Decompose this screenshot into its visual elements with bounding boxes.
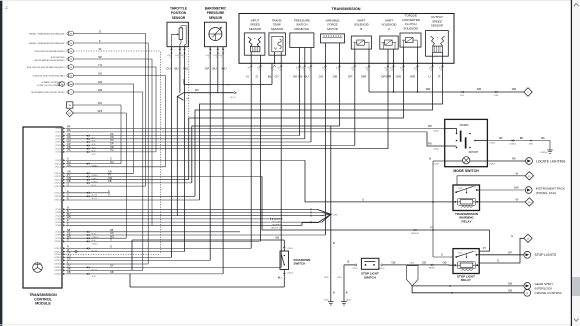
- wire TCM pin LY147-9 (S): [66, 159, 306, 161]
- wire B down to ground: [330, 126, 332, 302]
- svg-text:ECM FUEL INJECTION (FUEL FAIL): ECM FUEL INJECTION (FUEL FAIL): [33, 74, 65, 77]
- svg-text:LY148-4: LY148-4: [55, 219, 61, 221]
- svg-text:LY148-7: LY148-7: [55, 232, 61, 234]
- svg-text:UG: UG: [98, 72, 103, 76]
- svg-text:LY204-2: LY204-2: [287, 272, 293, 274]
- wire BU rail (tps/bps): [179, 47, 181, 93]
- svg-text:LY148-10: LY148-10: [54, 241, 61, 243]
- svg-text:LY18-4: LY18-4: [352, 268, 357, 270]
- svg-text:BLK: BLK: [414, 68, 417, 70]
- wire TCM pin LY147-5 (OU): [66, 141, 312, 143]
- svg-text:-2: -2: [216, 57, 218, 59]
- W top diamond: [525, 172, 533, 180]
- ground LS516: [328, 301, 334, 303]
- stop relay coil: [457, 262, 475, 269]
- svg-text:BU: BU: [174, 66, 178, 70]
- svg-text:30: 30: [70, 33, 72, 35]
- variable force motor box: [321, 34, 345, 43]
- svg-text:BLK: BLK: [257, 68, 260, 70]
- svg-text:BLK: BLK: [296, 68, 299, 70]
- svg-text:THROTTLE: THROTTLE: [170, 7, 187, 11]
- wire GB (splice to cruise control): [412, 286, 524, 293]
- wire GP (relay to stop lights): [479, 254, 524, 256]
- svg-text:LY147-4: LY147-4: [55, 139, 61, 141]
- connector 23 (climate control): [58, 82, 60, 86]
- svg-text:(TRANS. FAIL): (TRANS. FAIL): [536, 191, 557, 195]
- wire OU (tps to TCM): [171, 47, 173, 258]
- wire GP (bps to TCM): [209, 47, 211, 261]
- svg-text:LY29: LY29: [213, 55, 217, 57]
- strategy select link: [272, 218, 274, 220]
- oss pickup symbol: [431, 36, 435, 46]
- svg-text:LY147-6: LY147-6: [55, 145, 61, 147]
- wire TCM pin LY148-19 (OB): [66, 273, 224, 275]
- svg-text:PRESSURE: PRESSURE: [207, 11, 225, 15]
- svg-text:BLK: BLK: [429, 68, 432, 70]
- mode switch lamp: [463, 157, 470, 164]
- wire TCM pin LY148-10 (G): [66, 240, 260, 242]
- WR inline connector LY264: [495, 91, 497, 93]
- wire W (dashed): [73, 51, 160, 254]
- svg-text:LY29: LY29: [206, 55, 210, 57]
- svg-text:LY148-18: LY148-18: [54, 270, 61, 272]
- svg-text:LY18-2: LY18-2: [379, 268, 384, 270]
- right area vertical tie: [432, 202, 434, 257]
- wire BU (kickdown to TCM): [130, 286, 284, 288]
- svg-text:LY147-13: LY147-13: [54, 176, 61, 178]
- svg-text:LY147-5: LY147-5: [55, 142, 61, 144]
- svg-text:LY147-3: LY147-3: [55, 135, 61, 137]
- wire G (input speed sensor to TCM): [260, 63, 262, 241]
- wire TCM pin LY147-19 (R): [66, 199, 200, 201]
- svg-text:LY148-14: LY148-14: [54, 257, 61, 259]
- svg-text:-1: -1: [221, 57, 223, 59]
- svg-text:LY147-7: LY147-7: [55, 148, 61, 150]
- tcc solenoid symbol: [405, 38, 413, 43]
- stop lights exit: [524, 251, 531, 258]
- svg-text:GB: GB: [275, 236, 279, 240]
- ground LM283 (mode switch): [547, 149, 553, 151]
- kickdown switch box: [280, 251, 289, 270]
- svg-text:GB: GB: [392, 260, 396, 264]
- BK inline connector GM70: [530, 140, 532, 142]
- trans temp sensor box: [269, 33, 286, 55]
- svg-text:LY264: LY264: [494, 95, 499, 97]
- svg-text:GL16: GL16: [92, 240, 96, 242]
- svg-text:U: U: [67, 194, 69, 197]
- svg-text:LG6: LG6: [186, 98, 189, 100]
- svg-text:-14: -14: [401, 70, 403, 72]
- svg-text:LY148-5: LY148-5: [55, 222, 61, 224]
- tts pins: [273, 52, 275, 64]
- wire SP: [73, 59, 152, 225]
- svg-text:GB: GB: [508, 281, 512, 285]
- svg-text:BLK: BLK: [322, 68, 325, 70]
- svg-text:GM70: GM70: [529, 143, 533, 145]
- svg-text:-1: -1: [182, 57, 184, 59]
- iss pickup symbol: [248, 37, 252, 47]
- wire TCM pin LY148-12 (W): [66, 251, 185, 253]
- svg-text:WR: WR: [386, 74, 392, 78]
- svg-text:TRANSMISSION: TRANSMISSION: [331, 7, 360, 11]
- svg-text:GP: GP: [508, 250, 512, 254]
- svg-text:BLK: BLK: [308, 68, 311, 70]
- svg-text:RK: RK: [512, 156, 516, 160]
- svg-text:LM283-6: LM283-6: [541, 152, 547, 154]
- svg-text:BLK: BLK: [278, 68, 281, 70]
- mode switch box: [445, 119, 488, 166]
- output speed sensor box: [426, 31, 449, 57]
- svg-text:LY147-15: LY147-15: [54, 183, 61, 185]
- wire TCM pin LY148-13 (GP): [66, 253, 161, 255]
- svg-text:FY: FY: [430, 226, 434, 230]
- svg-text:WU: WU: [183, 66, 188, 70]
- BK inline connector LY284-12: [511, 140, 513, 142]
- BU rail inline connector GL1-11: [234, 92, 236, 94]
- svg-text:OP: OP: [348, 74, 352, 78]
- TCM pin arrows: [63, 127, 65, 129]
- svg-text:LY147-19: LY147-19: [54, 200, 61, 202]
- wire GN: [74, 84, 133, 173]
- svg-text:SPORT: SPORT: [469, 150, 479, 154]
- instrument pack exit: [525, 187, 532, 194]
- cruise control exit: [524, 289, 531, 296]
- svg-text:GB: GB: [98, 88, 102, 92]
- svg-text:23: 23: [61, 84, 63, 86]
- svg-text:INSTRUMENT PACK: INSTRUMENT PACK: [536, 186, 566, 190]
- GB chain dots: [449, 285, 451, 287]
- svg-text:GL16: GL16: [92, 141, 96, 143]
- svg-text:LY146-2: LY146-2: [433, 149, 439, 151]
- svg-text:SENSOR: SENSOR: [249, 27, 261, 31]
- scrollbar divider line: [571, 0, 572, 326]
- svg-text:G: G: [497, 259, 499, 263]
- svg-text:LY148-2: LY148-2: [55, 212, 61, 214]
- svg-text:LY90: LY90: [180, 55, 184, 57]
- transmission pin arrows: [250, 65, 252, 67]
- wire TCM pin LY148-5 (P): [66, 221, 323, 223]
- stop relay G input wire: [433, 256, 453, 258]
- svg-text:GL1-10: GL1-10: [92, 269, 97, 271]
- svg-text:LY148-12: LY148-12: [54, 251, 61, 253]
- svg-text:GL14: GL14: [92, 276, 96, 278]
- svg-text:BK: BK: [520, 136, 524, 140]
- svg-text:RELAY: RELAY: [461, 278, 471, 282]
- wire S (TCM to warning relay): [305, 160, 453, 202]
- svg-text:WR: WR: [426, 87, 431, 91]
- svg-text:OW: OW: [396, 74, 401, 78]
- wire TCM pin LY148-6 (S): [66, 224, 303, 226]
- GB inline connector SH180-7: [431, 264, 433, 266]
- svg-text:-6: -6: [303, 70, 304, 72]
- svg-text:GB: GB: [422, 260, 426, 264]
- connector 26A row GN: [67, 82, 69, 86]
- svg-text:LY148-3: LY148-3: [55, 215, 61, 217]
- wire OP (shift solenoid B to TCM): [354, 63, 356, 145]
- svg-text:MOTOR: MOTOR: [327, 27, 338, 31]
- wire B merge bundle: [317, 209, 331, 214]
- svg-text:GL14: GL14: [460, 95, 464, 97]
- svg-text:SERIAL COMMUNICATIONS DATA LIN: SERIAL COMMUNICATIONS DATA LINK: [29, 42, 65, 45]
- svg-text:MODULE: MODULE: [35, 301, 51, 305]
- svg-text:-12: -12: [385, 70, 387, 72]
- svg-text:OS: OS: [319, 74, 323, 78]
- wire U (output speed sensor), staircase: [195, 63, 433, 196]
- svg-text:LY148-6: LY148-6: [55, 225, 61, 227]
- splice LA90: [330, 213, 332, 215]
- svg-text:GL7-2: GL7-2: [92, 234, 97, 236]
- wire TCM pin LY148-7 (SB): [66, 231, 241, 233]
- svg-text:-8: -8: [324, 70, 325, 72]
- svg-text:RG: RG: [67, 129, 71, 132]
- svg-text:SENSOR: SENSOR: [431, 24, 443, 28]
- wire TCM pin LY148-11 (N): [66, 247, 252, 249]
- svg-text:BK: BK: [541, 136, 545, 140]
- svg-text:GL1-16: GL1-16: [92, 195, 97, 197]
- scrollbar thumb: [572, 277, 580, 296]
- svg-text:LY148-11: LY148-11: [55, 248, 62, 250]
- svg-text:LY147-18: LY147-18: [54, 196, 61, 198]
- barometric pressure sensor box: [205, 22, 227, 47]
- svg-text:26: 26: [70, 67, 72, 69]
- svg-text:LY284-12: LY284-12: [509, 143, 516, 145]
- connector 26 row SP: [67, 57, 69, 61]
- wire O: [73, 34, 145, 187]
- svg-text:LY147-2: LY147-2: [55, 132, 61, 134]
- bottom hairline: [0, 323, 580, 326]
- svg-text:CRUISE CONTROL: CRUISE CONTROL: [535, 291, 563, 295]
- G diamond: [524, 234, 532, 242]
- svg-text:GL1-11: GL1-11: [230, 97, 235, 99]
- wire TCM pin LY147-12 (GN): [66, 172, 134, 174]
- svg-text:LY148-16: LY148-16: [54, 264, 61, 266]
- svg-text:LS515: LS515: [337, 277, 342, 279]
- bps aneroid symbol: [209, 28, 222, 41]
- svg-text:NU: NU: [110, 161, 114, 164]
- splice LG6: [222, 84, 224, 86]
- svg-text:R: R: [67, 197, 69, 200]
- svg-text:LY147-9: LY147-9: [55, 160, 61, 162]
- svg-text:-7: -7: [309, 70, 310, 72]
- svg-text:WU: WU: [221, 66, 226, 70]
- svg-text:BLK: BLK: [351, 68, 354, 70]
- svg-text:N: N: [110, 246, 112, 249]
- svg-text:GL1-15: GL1-15: [92, 198, 97, 200]
- svg-text:RH165-20: RH165-20: [411, 233, 418, 235]
- connector 26 row UG: [67, 73, 69, 77]
- svg-text:-2: -2: [178, 57, 180, 59]
- ssa pins: [387, 49, 389, 63]
- svg-text:-10: -10: [352, 70, 354, 72]
- tts thermistor symbol: [272, 36, 283, 52]
- ssb pins: [354, 49, 356, 63]
- svg-text:LY90: LY90: [167, 55, 171, 57]
- stop light switch right connector: [381, 264, 383, 266]
- svg-text:-1: -1: [249, 70, 250, 72]
- merge feeder ticks: [310, 208, 312, 210]
- svg-text:INSTRUMENT PACK (SPORT MODE): INSTRUMENT PACK (SPORT MODE): [31, 91, 64, 94]
- wire TCM pin LY147-16 (O): [66, 185, 146, 187]
- throttle position sensor box: [167, 22, 188, 47]
- svg-text:GL12: GL12: [92, 154, 96, 156]
- WR inline connector GL14: [461, 91, 463, 93]
- svg-text:GP: GP: [205, 66, 209, 70]
- svg-text:W: W: [516, 198, 519, 202]
- svg-text:87: 87: [474, 251, 476, 253]
- psm pins: [299, 48, 301, 64]
- wire WU (tps to TCM): [184, 47, 186, 252]
- wire K: [73, 43, 148, 264]
- svg-text:FY: FY: [483, 246, 487, 250]
- svg-text:OY: OY: [275, 74, 279, 78]
- svg-text:LY146-1: LY146-1: [433, 131, 439, 133]
- top hairline: [0, 0, 580, 2]
- shift solenoid A box: [380, 36, 398, 49]
- kickdown bottom pin: [283, 270, 285, 288]
- svg-text:OU: OU: [166, 66, 171, 70]
- svg-text:ON: ON: [298, 74, 303, 78]
- svg-text:OB: OB: [333, 74, 337, 78]
- svg-text:YG: YG: [110, 149, 114, 152]
- input speed sensor box: [244, 33, 265, 55]
- wire W (relay coil to diamond): [480, 201, 526, 203]
- wire B (to stop light switch): [344, 264, 355, 266]
- svg-text:(IGN. RETARD ACKNOWLEDGED): (IGN. RETARD ACKNOWLEDGED): [34, 59, 65, 62]
- svg-text:NORM: NORM: [460, 123, 469, 127]
- svg-text:SOLENOID: SOLENOID: [403, 26, 418, 30]
- svg-text:LS512: LS512: [324, 277, 329, 279]
- svg-text:BLK: BLK: [400, 68, 403, 70]
- scrollbar track: [572, 0, 580, 326]
- wire TCM pin LY148-18 (GB): [66, 269, 143, 271]
- svg-text:87: 87: [474, 187, 476, 189]
- svg-text:G: G: [441, 253, 443, 257]
- svg-text:LG16: LG16: [226, 85, 230, 87]
- svg-text:SENSOR: SENSOR: [172, 16, 186, 20]
- vfm pins: [325, 43, 327, 63]
- svg-text:G: G: [67, 239, 69, 242]
- svg-text:ECM IGNITION: ECM IGNITION: [51, 57, 65, 59]
- svg-text:OY: OY: [110, 265, 114, 268]
- scrollbar down arrow: [574, 318, 579, 321]
- iss pins: [250, 52, 252, 64]
- ssb solenoid symbol: [357, 40, 365, 45]
- pencil cursor artifact top-left: [5, 6, 8, 9]
- svg-text:LY147-14: LY147-14: [54, 179, 61, 181]
- wire TCM pin LY147-7 (OR): [66, 148, 389, 150]
- wire OK (pressure switch to TCM): [299, 63, 301, 135]
- svg-text:1: 1: [71, 92, 72, 94]
- relay terminal 87 (WS feed): [66, 109, 73, 116]
- svg-text:WR: WR: [512, 87, 517, 91]
- connector 26 row W: [67, 49, 69, 53]
- svg-text:SP: SP: [98, 55, 102, 59]
- svg-text:LS526: LS526: [410, 262, 415, 264]
- wire R (output speed sensor), staircase: [200, 63, 443, 200]
- svg-text:MANIFOLD: MANIFOLD: [294, 27, 309, 31]
- svg-text:LOCATE LIGHTING: LOCATE LIGHTING: [536, 159, 566, 163]
- svg-text:POSITION: POSITION: [171, 11, 187, 15]
- wire G (relay out): [479, 238, 524, 263]
- svg-text:LY148-13: LY148-13: [54, 254, 61, 256]
- WR rail junctions: [393, 91, 395, 93]
- connector 26 row YG: [67, 65, 69, 69]
- svg-text:26: 26: [70, 75, 72, 77]
- wire B mode switch: [433, 160, 445, 162]
- svg-text:LY148-15: LY148-15: [54, 260, 61, 262]
- kickdown switch symbol: [284, 255, 285, 256]
- connector 30 row K: [67, 41, 69, 45]
- svg-text:BLK: BLK: [301, 68, 304, 70]
- wire TCM pin LY147-14 (OW): [66, 179, 189, 181]
- tcm internal symbol: [33, 263, 43, 273]
- svg-text:-3: -3: [169, 57, 171, 59]
- wire TCM pin LY148-1 (B): [66, 208, 318, 210]
- svg-text:BAROMETRIC: BAROMETRIC: [205, 7, 227, 11]
- svg-text:-11: -11: [366, 70, 368, 72]
- svg-text:SENSOR: SENSOR: [271, 27, 283, 31]
- svg-text:-17: -17: [440, 70, 442, 72]
- wire TCM pin LY148-15 (GU): [66, 259, 211, 261]
- warning relay switch: [455, 191, 457, 193]
- wire TCM pin LY147-2 (RG): [66, 131, 428, 133]
- svg-text:BLK: BLK: [366, 68, 369, 70]
- wire N (input speed sensor to TCM): [250, 63, 252, 248]
- svg-text:30: 30: [70, 43, 72, 45]
- svg-text:YG: YG: [67, 149, 71, 152]
- svg-text:LY284-8: LY284-8: [92, 175, 98, 177]
- wire TCM pin LY148-2 (B): [66, 212, 323, 214]
- svg-text:GL1-14: GL1-14: [92, 250, 97, 252]
- wire WR rail: [368, 63, 370, 92]
- svg-text:-5: -5: [298, 70, 299, 72]
- wire TCM pin LY147-6 (OP): [66, 145, 355, 147]
- svg-text:26: 26: [70, 51, 72, 53]
- svg-text:-3: -3: [208, 57, 210, 59]
- svg-text:MODE SWITCH: MODE SWITCH: [453, 169, 479, 173]
- svg-text:S: S: [362, 198, 364, 202]
- tps box dashed right edge: [188, 22, 190, 180]
- tcc solenoid box: [400, 33, 421, 47]
- wire GB (TCM to kickdown): [132, 239, 284, 241]
- svg-text:BU: BU: [268, 74, 272, 78]
- ground LS520: [341, 301, 347, 303]
- stop light switch symbol: [365, 264, 367, 266]
- svg-text:LY148-8: LY148-8: [55, 235, 61, 237]
- scrollbar up arrow: [574, 3, 579, 6]
- svg-text:G: G: [511, 234, 513, 238]
- wire TCM pin LY147-18 (U): [66, 195, 196, 197]
- svg-text:K: K: [99, 39, 101, 43]
- svg-text:N: N: [246, 74, 248, 78]
- svg-text:BLK: BLK: [390, 68, 393, 70]
- stop light relay box: [453, 249, 479, 274]
- wire UG: [73, 76, 165, 167]
- tps potentiometer symbol: [179, 28, 183, 40]
- svg-text:O: O: [67, 183, 69, 186]
- svg-text:RP: RP: [428, 124, 432, 128]
- svg-text:BK: BK: [499, 136, 503, 140]
- transmission control module box: [23, 127, 62, 288]
- wire TCM pin LY148-8 (OS): [66, 234, 326, 236]
- svg-text:RELAY: RELAY: [462, 219, 472, 223]
- svg-text:W: W: [516, 171, 519, 175]
- wire TCM pin LY147-17 (A): [66, 192, 111, 194]
- svg-text:-16: -16: [430, 70, 432, 72]
- svg-text:LY147-12: LY147-12: [54, 173, 61, 175]
- svg-text:WR: WR: [361, 74, 367, 78]
- wire OS (force motor to TCM): [325, 63, 327, 235]
